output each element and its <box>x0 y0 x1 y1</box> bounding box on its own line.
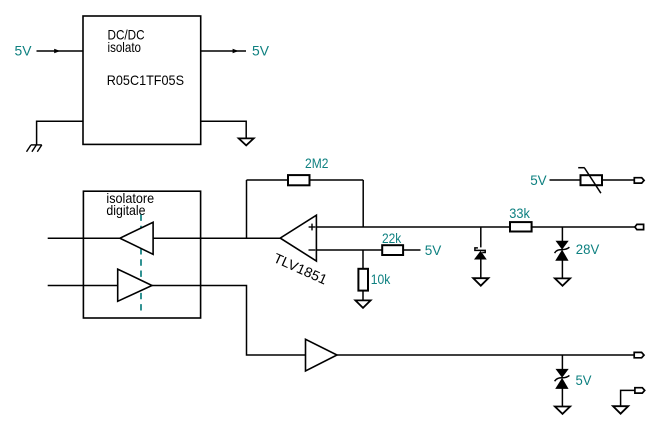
isolator buffer A (points left) <box>120 222 153 254</box>
svg-text:isolato: isolato <box>108 40 142 55</box>
wire feedback right vertical <box>362 180 364 227</box>
wire inverting input row <box>316 249 382 251</box>
ground (TVS 5V) <box>555 407 570 414</box>
wire feedback left vertical <box>246 180 248 238</box>
wire connector to ground <box>621 390 635 406</box>
svg-text:5V: 5V <box>425 243 442 258</box>
PTC top tick <box>578 167 585 169</box>
PTC fuse F1 <box>581 175 603 185</box>
output buffer U4 triangle <box>306 339 338 371</box>
TVS diode D3 bidirectional 5V <box>555 370 570 389</box>
resistor R3 10k <box>358 269 368 291</box>
wire 10k to ground <box>362 291 364 301</box>
svg-text:5V: 5V <box>252 44 270 59</box>
wire non-inverting input row <box>316 226 510 228</box>
isolation barrier dashed line <box>140 215 142 316</box>
wire buffer output row <box>337 354 634 356</box>
connector pin X1-2 (middle row) <box>635 224 644 229</box>
wire isolator B to output buffer <box>152 286 306 356</box>
wire zener branch <box>480 227 482 247</box>
wire TVS 5V branch <box>561 355 563 370</box>
svg-text:22k: 22k <box>382 231 401 246</box>
svg-text:5V: 5V <box>530 173 547 188</box>
arrow out of DC/DC <box>233 49 239 53</box>
wire inverting node down to 10k <box>362 250 364 269</box>
wire 22k to 5V <box>403 249 420 251</box>
ground (10k) <box>355 300 370 308</box>
svg-text:2M2: 2M2 <box>305 156 328 171</box>
TVS diode D2 bidirectional 28V <box>555 241 570 260</box>
connector pin X2-2 (grounded) <box>635 388 645 393</box>
wire 5V input <box>37 50 84 52</box>
wire zener to ground <box>480 259 482 278</box>
resistor R2 22k <box>382 245 403 255</box>
svg-text:digitale: digitale <box>106 203 145 218</box>
wire TVS to ground <box>561 260 563 278</box>
zener diode D1 <box>475 248 485 253</box>
ground (output side) <box>239 138 254 145</box>
DC/DC converter module U3 box <box>83 16 201 144</box>
ground (zener) <box>473 278 488 286</box>
isolator buffer B (points right) <box>118 269 152 301</box>
wire 5V to PTC <box>550 179 581 181</box>
connector pin X2-1 (output row) <box>634 352 644 357</box>
wire PTC to connector <box>602 179 634 181</box>
wire TVS 28V branch <box>561 227 563 241</box>
ground (connector) <box>613 406 628 414</box>
digital isolator U2 box <box>83 191 200 318</box>
earth ground (input side) <box>27 145 42 152</box>
ground (TVS 28V) <box>555 278 570 285</box>
wire feedback top right <box>310 179 364 181</box>
pin + symbol <box>309 224 316 231</box>
svg-text:TLV1851: TLV1851 <box>271 251 329 288</box>
svg-text:5V: 5V <box>576 373 593 388</box>
PTC diagonal stroke <box>585 168 601 193</box>
wire TVS 5V to ground <box>561 388 563 406</box>
wire node RX left <box>48 237 120 239</box>
wire DC/DC left ground <box>37 121 83 145</box>
svg-text:28V: 28V <box>576 242 600 257</box>
svg-text:10k: 10k <box>371 272 391 287</box>
wire 33k to connector <box>531 226 635 228</box>
wire node TX left <box>48 285 118 287</box>
connector pin X1-1 (top row) <box>634 178 644 183</box>
resistor R4 33k <box>510 222 532 231</box>
wire comparator output to isolator A <box>153 237 280 239</box>
arrow into DC/DC <box>54 49 60 53</box>
wire DC/DC right ground <box>201 121 247 138</box>
wire 5V output <box>201 50 246 52</box>
svg-text:33k: 33k <box>509 206 530 221</box>
svg-text:R05C1TF05S: R05C1TF05S <box>107 73 184 88</box>
svg-text:5V: 5V <box>15 44 33 59</box>
resistor R1 2M2 <box>288 175 310 185</box>
comparator U1 TLV1851 triangle <box>280 215 316 261</box>
wire feedback top left <box>247 179 289 181</box>
pin - symbol <box>309 249 316 251</box>
